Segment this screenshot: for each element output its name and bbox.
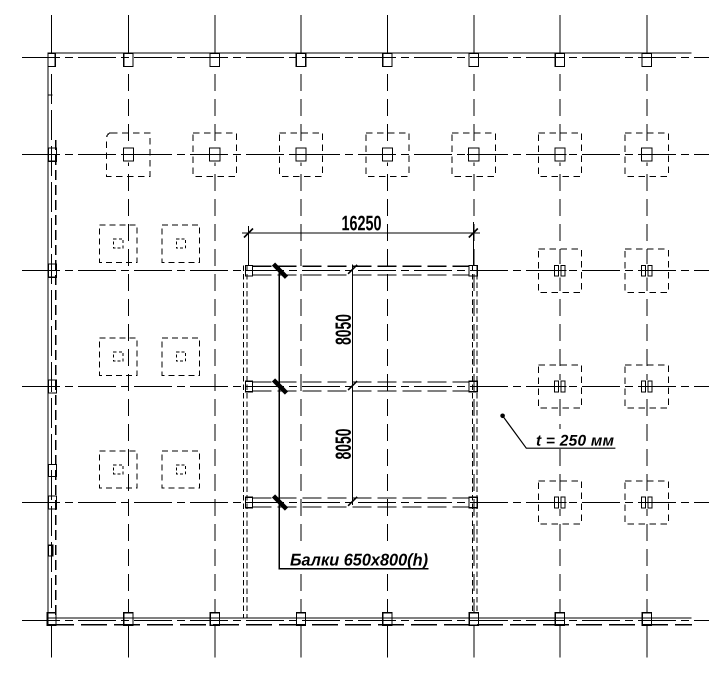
bottom wall outer face (dashed) [48, 624, 692, 626]
grid axis horizontal A [22, 57, 709, 59]
capital with column, axis 2/B [107, 133, 150, 176]
column top wall axis 2 [124, 53, 133, 66]
capital with column, axis 5/B [366, 133, 409, 176]
capital with column at x646 y270 [625, 249, 668, 292]
beam stub column right at row y502 [469, 497, 477, 508]
capital with column at x559 y386 [538, 365, 581, 408]
leader line for slab note [503, 416, 616, 448]
column bottom wall axis 5 [383, 613, 392, 625]
column top wall axis 3 [210, 53, 219, 66]
column bottom wall axis 8 [642, 613, 651, 625]
beam stub column left at row y386 [245, 381, 252, 392]
column left wall row B [48, 148, 56, 161]
svg-text:8050: 8050 [331, 429, 356, 460]
grid axis vertical 4 [300, 15, 302, 657]
column left wall row V [48, 264, 56, 277]
beam designation mark at row y270 [274, 264, 287, 277]
column top wall axis 4 [296, 53, 305, 66]
beam 650x800 at row y386 [252, 382, 469, 391]
column bottom wall axis 1 [47, 613, 56, 625]
column top wall axis 8 [642, 53, 651, 66]
column top wall axis 1 [48, 53, 55, 66]
svg-text:t = 250 мм: t = 250 мм [536, 433, 615, 450]
slab panel left edge (double dashed) [243, 266, 247, 619]
column top wall axis 7 [555, 53, 564, 66]
svg-text:8050: 8050 [331, 314, 356, 345]
column bottom wall axis 6 [469, 613, 478, 625]
grid axis vertical 3 [214, 15, 216, 657]
footing pad at x180 y243 [162, 225, 199, 262]
grid axis horizontal D [22, 502, 709, 504]
grid axis vertical 8 [646, 15, 648, 657]
grid axis horizontal V [22, 270, 709, 272]
column top wall axis 5 [383, 53, 392, 66]
capital with column at x646 y386 [625, 365, 668, 408]
left wall outer face [47, 53, 49, 625]
left wall inner face (dashed) [55, 140, 57, 618]
grid axis horizontal B [22, 154, 709, 156]
dimension line 8050 (vertical) [352, 265, 354, 506]
beam stub column left at row y270 [245, 265, 252, 276]
beam stub column left at row y502 [245, 497, 252, 508]
beam stub column right at row y270 [469, 265, 477, 276]
column bottom wall axis 4 [296, 613, 305, 625]
beam 650x800 at row y502 [252, 498, 469, 507]
capital with column at x559 y502 [538, 481, 581, 524]
footing pad at x118 y243 [100, 225, 137, 262]
capital with column, axis 6/B [452, 133, 495, 176]
column bottom wall axis 2 [124, 613, 133, 625]
dimension ticks 16250 [244, 229, 478, 238]
capital with column, axis 3/B [193, 133, 236, 176]
column left wall row D [48, 496, 56, 509]
beam 650x800 at row y270 [252, 266, 469, 275]
capital with column at x646 y502 [625, 481, 668, 524]
grid axis horizontal E [22, 619, 709, 621]
grid axis vertical 1 [51, 15, 53, 657]
capital with column at x559 y270 [538, 249, 581, 292]
dimension ticks 8050 [348, 265, 357, 506]
beam designation mark at row y502 [274, 496, 287, 509]
pilaster left wall lower [48, 545, 53, 556]
grid axis vertical 7 [559, 15, 561, 657]
grid axis vertical 6 [473, 15, 475, 657]
svg-text:16250: 16250 [341, 212, 381, 235]
leader line for beams label [279, 266, 428, 569]
capital with column, axis 4/B [279, 133, 322, 176]
capital with column, axis 8/B [625, 133, 668, 176]
beam designation mark at row y386 [274, 380, 287, 393]
dimension line 16250 [242, 222, 480, 265]
footing pad at x180 y469 [162, 451, 199, 488]
slab panel right edge (double dashed) [473, 266, 478, 614]
column bottom wall axis 3 [210, 613, 219, 625]
grid axis horizontal G [22, 386, 709, 388]
footing pad at x180 y356 [162, 338, 199, 375]
top wall [48, 52, 692, 54]
column bottom wall axis 7 [555, 613, 564, 625]
bottom wall inner face [48, 617, 691, 619]
beam stub column right at row y386 [469, 381, 477, 392]
pilaster left wall upper [48, 465, 56, 477]
svg-text:Балки 650x800(h): Балки 650x800(h) [290, 551, 428, 570]
label t = 250 mm white backing [529, 429, 619, 447]
column top wall axis 6 [469, 53, 478, 66]
column left wall row G [48, 380, 56, 393]
footing pad at x118 y469 [100, 451, 137, 488]
capital with column, axis 7/B [538, 133, 581, 176]
grid axis vertical 2 [127, 15, 129, 657]
left wall jamb tick [48, 94, 52, 96]
leader dot for slab note [500, 414, 505, 419]
grid axis vertical 5 [386, 15, 388, 657]
label Balki 650x800(h) white backing [283, 548, 433, 568]
footing pad at x118 y356 [100, 338, 137, 375]
